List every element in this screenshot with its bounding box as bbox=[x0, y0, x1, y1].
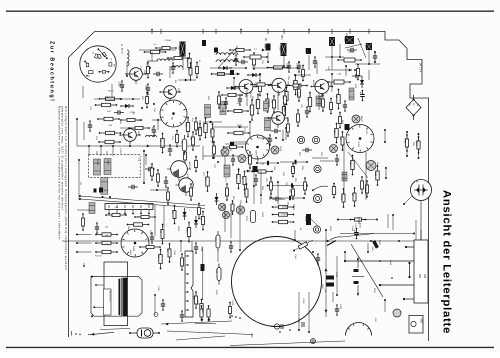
svg-text:R207: R207 bbox=[304, 217, 306, 223]
svg-text:M09: M09 bbox=[420, 319, 422, 324]
svg-text:R25 06: R25 06 bbox=[95, 256, 102, 258]
svg-text:C329: C329 bbox=[231, 300, 233, 306]
svg-text:301: 301 bbox=[418, 274, 422, 279]
svg-text:R317: R317 bbox=[245, 216, 247, 222]
svg-text:R301: R301 bbox=[127, 226, 129, 232]
svg-text:R327: R327 bbox=[215, 290, 217, 296]
svg-text:AC132: AC132 bbox=[188, 162, 191, 169]
svg-text:R304: R304 bbox=[132, 246, 134, 252]
svg-text:R121: R121 bbox=[415, 141, 417, 147]
svg-text:C311: C311 bbox=[173, 250, 175, 256]
svg-text:1W607: 1W607 bbox=[360, 116, 362, 123]
svg-text:1W607: 1W607 bbox=[255, 150, 257, 158]
svg-text:R331: R331 bbox=[329, 226, 331, 232]
svg-text:R121: R121 bbox=[237, 125, 243, 127]
svg-text:R304: R304 bbox=[209, 129, 211, 135]
svg-text:AF 117: AF 117 bbox=[283, 110, 286, 117]
svg-text:R304: R304 bbox=[357, 142, 359, 148]
svg-text:C310: C310 bbox=[364, 44, 366, 50]
svg-text:1W: 1W bbox=[416, 103, 418, 106]
svg-text:AF 116 473: AF 116 473 bbox=[109, 291, 112, 302]
svg-text:R311: R311 bbox=[403, 139, 405, 145]
svg-text:R311: R311 bbox=[349, 161, 351, 167]
svg-text:R121: R121 bbox=[304, 48, 306, 54]
svg-text:BK 10: BK 10 bbox=[121, 48, 123, 55]
svg-text:2P 7 1 4: 2P 7 1 4 bbox=[419, 63, 422, 73]
svg-text:C310: C310 bbox=[118, 82, 120, 88]
svg-text:Ansicht der Leiterplatte: Ansicht der Leiterplatte bbox=[441, 190, 453, 334]
svg-text:C303: C303 bbox=[149, 230, 151, 236]
svg-text:1W607: 1W607 bbox=[282, 206, 290, 208]
svg-text:R304: R304 bbox=[144, 85, 146, 91]
svg-text:L 603: L 603 bbox=[119, 148, 121, 154]
svg-text:C310: C310 bbox=[254, 83, 256, 89]
svg-text:Als Lötgut darf nur Lötzinn mi: Als Lötgut darf nur Lötzinn mit niedrigs… bbox=[64, 106, 68, 271]
svg-text:C343: C343 bbox=[389, 260, 391, 266]
svg-text:C313: C313 bbox=[200, 246, 202, 252]
svg-text:304: 304 bbox=[423, 274, 427, 279]
svg-text:R337: R337 bbox=[321, 284, 323, 290]
svg-text:C2040: C2040 bbox=[243, 189, 245, 196]
svg-text:R309: R309 bbox=[177, 226, 179, 232]
svg-text:C310: C310 bbox=[185, 228, 187, 234]
svg-text:MP2: MP2 bbox=[345, 33, 347, 38]
svg-text:R311: R311 bbox=[333, 129, 335, 135]
svg-text:AF121: AF121 bbox=[312, 80, 315, 87]
svg-text:R121: R121 bbox=[254, 100, 256, 106]
svg-text:R121: R121 bbox=[109, 91, 115, 93]
svg-text:R207: R207 bbox=[138, 120, 144, 122]
svg-text:MP1: MP1 bbox=[280, 35, 282, 40]
svg-text:C2040: C2040 bbox=[340, 194, 342, 201]
svg-text:R311: R311 bbox=[374, 171, 376, 177]
svg-text:C2040: C2040 bbox=[165, 40, 172, 42]
svg-text:C319: C319 bbox=[261, 212, 263, 218]
svg-text:C310: C310 bbox=[105, 97, 111, 99]
svg-text:C340: C340 bbox=[335, 272, 337, 278]
svg-text:C2040: C2040 bbox=[348, 52, 355, 54]
svg-text:R207: R207 bbox=[279, 147, 281, 153]
svg-text:1W607: 1W607 bbox=[107, 159, 109, 166]
svg-text:C333: C333 bbox=[351, 226, 353, 232]
svg-text:C339: C339 bbox=[339, 304, 341, 310]
svg-text:R121: R121 bbox=[247, 156, 249, 162]
svg-text:Zur Beachtung!: Zur Beachtung! bbox=[49, 41, 55, 103]
svg-text:R307: R307 bbox=[129, 250, 131, 256]
svg-text:DU530: DU530 bbox=[96, 159, 98, 166]
svg-text:C310: C310 bbox=[282, 214, 288, 216]
svg-text:R341: R341 bbox=[373, 288, 375, 294]
svg-text:R121: R121 bbox=[343, 37, 345, 43]
svg-text:U 281: U 281 bbox=[302, 298, 304, 304]
svg-text:C344: C344 bbox=[294, 254, 296, 260]
